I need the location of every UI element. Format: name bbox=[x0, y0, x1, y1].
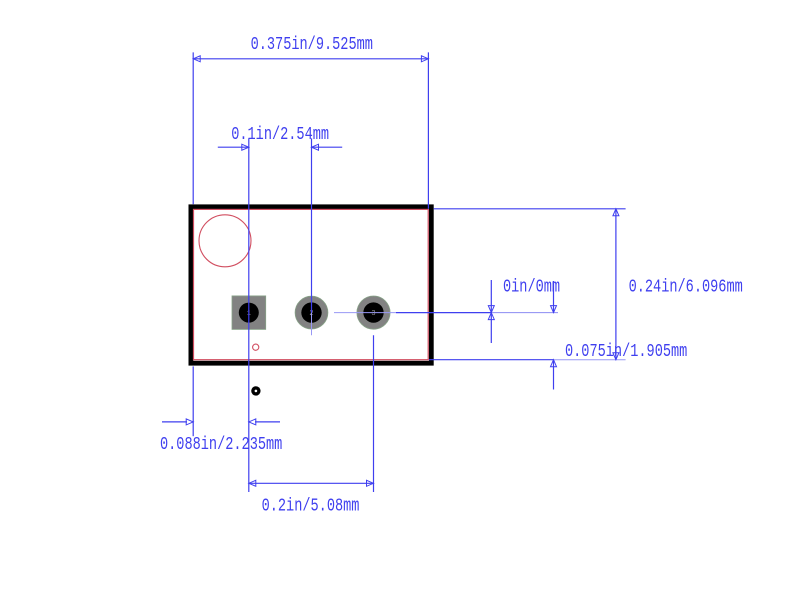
0.24in dim line bbox=[615, 209, 617, 360]
arrow: 0.075in lower (points up) bbox=[551, 360, 557, 367]
top dim: right extension line bbox=[427, 52, 429, 208]
pad 1 (square) bbox=[232, 296, 266, 330]
rect bottom extension to right bbox=[429, 359, 554, 361]
top dim line bbox=[193, 58, 428, 60]
svg-text:0.2in/5.08mm: 0.2in/5.08mm bbox=[262, 496, 360, 516]
pad3 centerline lower extension bbox=[373, 335, 375, 492]
pad 3 (round) bbox=[357, 296, 390, 329]
svg-text:0.375in/9.525mm: 0.375in/9.525mm bbox=[251, 34, 373, 54]
arrow: 0.075in upper (points down) bbox=[551, 306, 557, 313]
pad 3 hole bbox=[363, 302, 383, 322]
0in dim vertical line bbox=[490, 280, 492, 343]
svg-text:3: 3 bbox=[371, 310, 375, 318]
0.2in dim line bbox=[249, 482, 374, 484]
svg-text:0.1in/2.54mm: 0.1in/2.54mm bbox=[231, 124, 329, 144]
pad row centerline (faint part over pad 3) bbox=[334, 312, 396, 314]
pad 1 hole bbox=[239, 303, 259, 323]
svg-text:0.088in/2.235mm: 0.088in/2.235mm bbox=[160, 434, 282, 454]
pad2 centerline extension bbox=[311, 138, 313, 312]
component body outline (black) bbox=[191, 207, 431, 363]
left edge lower extension line bbox=[192, 366, 194, 436]
0.088in dim right arrow tail bbox=[255, 421, 280, 423]
top dim: left extension line bbox=[192, 52, 194, 204]
arrow: 0.2in left (points left) bbox=[249, 480, 256, 486]
arrow: 0.1in right (points left) bbox=[312, 144, 319, 150]
silkscreen rectangle (red) bbox=[194, 209, 429, 359]
arrow: 0in lower (points up) bbox=[488, 313, 494, 320]
silkscreen pin-1 circle (red) bbox=[199, 215, 251, 267]
arrow: top dim left bbox=[193, 56, 200, 62]
arrow: 0.24in bottom (points down) bbox=[613, 353, 619, 360]
arrow: 0in upper (points down) bbox=[488, 306, 494, 313]
arrow: 0.088in left (points right) bbox=[186, 419, 193, 425]
0.075in upper arrow tail bbox=[553, 281, 555, 313]
arrow: top dim right bbox=[421, 56, 428, 62]
pad row horizontal extension line bbox=[396, 312, 491, 314]
pad2 centerline below pad (faint) bbox=[311, 313, 313, 336]
rect bottom extension (faint part) bbox=[554, 359, 626, 361]
pad 2 hole bbox=[301, 302, 321, 322]
origin marker (black donut) bbox=[251, 386, 260, 395]
svg-text:0.075in/1.905mm: 0.075in/1.905mm bbox=[565, 341, 687, 361]
pad 2 (round) bbox=[295, 296, 328, 329]
pad1 centerline extension bbox=[248, 138, 250, 492]
rect top extension to right bbox=[434, 208, 626, 210]
0.088in dim left arrow tail bbox=[162, 421, 187, 423]
arrow: 0.2in right (points right) bbox=[367, 480, 374, 486]
arrow: 0.1in left (points right) bbox=[242, 144, 249, 150]
small red silkscreen circle bbox=[253, 344, 259, 350]
arrow: 0.24in top (points up) bbox=[613, 209, 619, 216]
arrow: 0.088in right (points left) bbox=[249, 419, 256, 425]
pad row extension line (faint part) bbox=[491, 312, 558, 314]
svg-text:0.24in/6.096mm: 0.24in/6.096mm bbox=[629, 277, 743, 297]
0.1in dim left arrow tail bbox=[218, 146, 249, 148]
0.075in lower arrow tail bbox=[553, 360, 555, 390]
0.1in dim right arrow tail bbox=[312, 146, 343, 148]
svg-text:0in/0mm: 0in/0mm bbox=[503, 277, 560, 297]
